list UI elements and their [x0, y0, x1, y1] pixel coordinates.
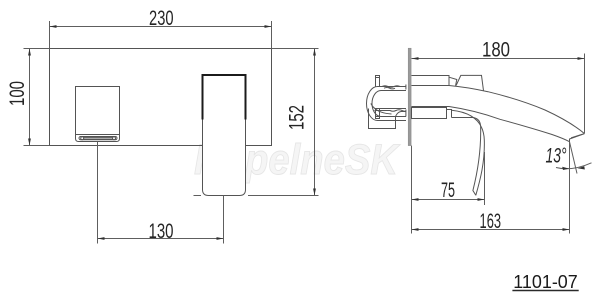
side view plate edge-on: [408, 48, 411, 145]
dim 163 line: [412, 229, 570, 231]
angle 13 slant line: [570, 142, 578, 174]
aerator end circle left: [81, 137, 84, 140]
valve outer housing capsule: [367, 87, 406, 121]
handle pivot piece: [447, 108, 452, 119]
dim 163 extension line: [569, 142, 571, 234]
svg-text:230: 230: [149, 7, 174, 30]
dim 130 line: [98, 238, 224, 240]
arrow 100 top: [28, 49, 31, 56]
dim 180 line: [412, 58, 585, 60]
spout root step piece: [449, 77, 457, 86]
dim 75 line: [412, 199, 485, 201]
spout top fin trapezoid: [456, 75, 483, 90]
arrow 230 right: [265, 25, 272, 28]
valve cartridge capsule: [372, 91, 406, 117]
spout bottom edge at root: [412, 106, 450, 108]
dim 152 line: [314, 49, 316, 196]
svg-text:180: 180: [482, 39, 510, 62]
svg-text:100: 100: [6, 81, 29, 106]
dim 230 line: [50, 26, 272, 28]
spout root block: [412, 76, 450, 86]
arrow 130 left: [98, 237, 105, 240]
angle 13 arc: [556, 163, 592, 169]
arrow 230 left: [50, 25, 57, 28]
arrow 163 left: [412, 228, 419, 231]
svg-text:1101-07: 1101-07: [513, 271, 578, 292]
handle front view outline: [203, 76, 246, 196]
dim 180 extension line: [584, 54, 586, 134]
arrow 163 right: [563, 228, 570, 231]
svg-text:163: 163: [480, 210, 502, 233]
arrow 152 bottom: [313, 189, 316, 196]
dim 230 extension lines: [50, 21, 272, 49]
dim 152 extension lines: [194, 49, 319, 196]
valve housing bottom arc: [371, 104, 392, 115]
svg-text:152: 152: [286, 105, 309, 130]
arrow 100 bottom: [28, 139, 31, 146]
spout front aerator slot: [79, 137, 117, 140]
model number underline: [512, 290, 578, 292]
handle front thick stroke: [203, 75, 246, 120]
dim 100 extension lines: [24, 49, 50, 146]
valve bottom stub: [376, 109, 380, 119]
arrow angle arc left: [562, 167, 569, 170]
spout end face: [570, 134, 585, 142]
arrow 180 left: [412, 57, 419, 60]
wall plate front view: [50, 49, 272, 146]
aerator slot inner detail: [84, 137, 112, 139]
dim 75 extension lines: [412, 146, 485, 234]
spout front aerator line: [76, 134, 120, 136]
handle lever outer edge: [452, 110, 485, 195]
svg-text:13°: 13°: [546, 145, 567, 168]
handle lever inner edge: [452, 118, 481, 196]
valve seam lines: [375, 109, 407, 112]
dim 100 line: [29, 49, 31, 146]
valve thread marks: [382, 86, 400, 89]
aerator end circle right: [113, 137, 116, 140]
valve body top stub: [376, 76, 380, 87]
arrow 152 top: [313, 49, 316, 56]
svg-text:130: 130: [149, 220, 174, 243]
arrow angle arc right: [578, 166, 585, 169]
valve flange segments at plate: [405, 85, 407, 117]
handle mount bar side view: [412, 108, 447, 119]
arrow 75 left: [412, 198, 419, 201]
valve lower housing box: [369, 109, 406, 129]
arrow 75 right: [478, 198, 485, 201]
dim 130 extension lines: [98, 142, 224, 244]
spout top edge curve: [449, 86, 585, 134]
spout bottom edge curve: [449, 107, 570, 142]
spout front view body: [76, 87, 120, 142]
svg-text:75: 75: [441, 179, 455, 202]
arrow 130 right: [217, 237, 224, 240]
arrow 180 right: [578, 57, 585, 60]
